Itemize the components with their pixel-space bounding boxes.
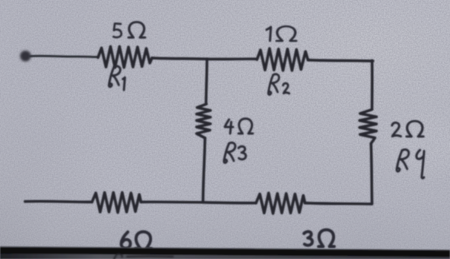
value label 2 of R4 xyxy=(392,123,401,137)
label R4 xyxy=(397,150,424,179)
value label ohm of R4 xyxy=(407,121,424,136)
label R2 xyxy=(268,74,289,94)
cut-off handwriting below edge xyxy=(114,254,173,259)
wire: R1 to node A xyxy=(152,58,207,59)
wire: R4 to bottom-right corner xyxy=(371,144,372,203)
value label 5 of R1 xyxy=(113,24,121,38)
terminal node dot xyxy=(20,51,31,62)
resistor R1 (5 ohm) zigzag xyxy=(98,47,152,68)
value label 6 of bottom-left resistor xyxy=(121,232,130,248)
value label ohm of bottom-right resistor xyxy=(319,230,335,247)
photo black bottom edge xyxy=(0,246,450,259)
value label ohm of bottom-left resistor xyxy=(136,232,152,249)
value label 3 of bottom-right resistor xyxy=(304,232,312,246)
label R1 xyxy=(109,66,125,90)
resistor R2 (1 ohm) zigzag xyxy=(257,49,308,71)
resistor 3 ohm zigzag xyxy=(256,193,305,214)
wire: dot to R1 xyxy=(31,56,99,57)
wire: node A down to R3 xyxy=(206,59,207,104)
label R3 xyxy=(224,143,246,163)
resistor R4 (2 ohm) vertical zigzag xyxy=(360,110,377,144)
resistor 6 ohm zigzag xyxy=(92,193,141,213)
wire: bottom-left end to 6 ohm resistor xyxy=(25,200,92,203)
wire: 6 ohm to 3 ohm through bottom junction xyxy=(141,202,256,203)
wire: 3 ohm to bottom-right corner xyxy=(305,203,372,204)
wire: node A to R2 xyxy=(207,58,257,61)
value label 4 of R3 xyxy=(225,120,233,134)
value label ohm of R3 xyxy=(239,119,253,134)
wire: R3 to bottom junction xyxy=(203,138,205,201)
value label 1 of R2 xyxy=(267,27,271,41)
wire: R2 to top-right corner, down to R4 xyxy=(308,60,373,109)
resistor R3 (4 ohm) vertical zigzag xyxy=(197,104,211,138)
value label ohm of R1 xyxy=(129,22,146,37)
value label ohm of R2 xyxy=(277,26,297,41)
